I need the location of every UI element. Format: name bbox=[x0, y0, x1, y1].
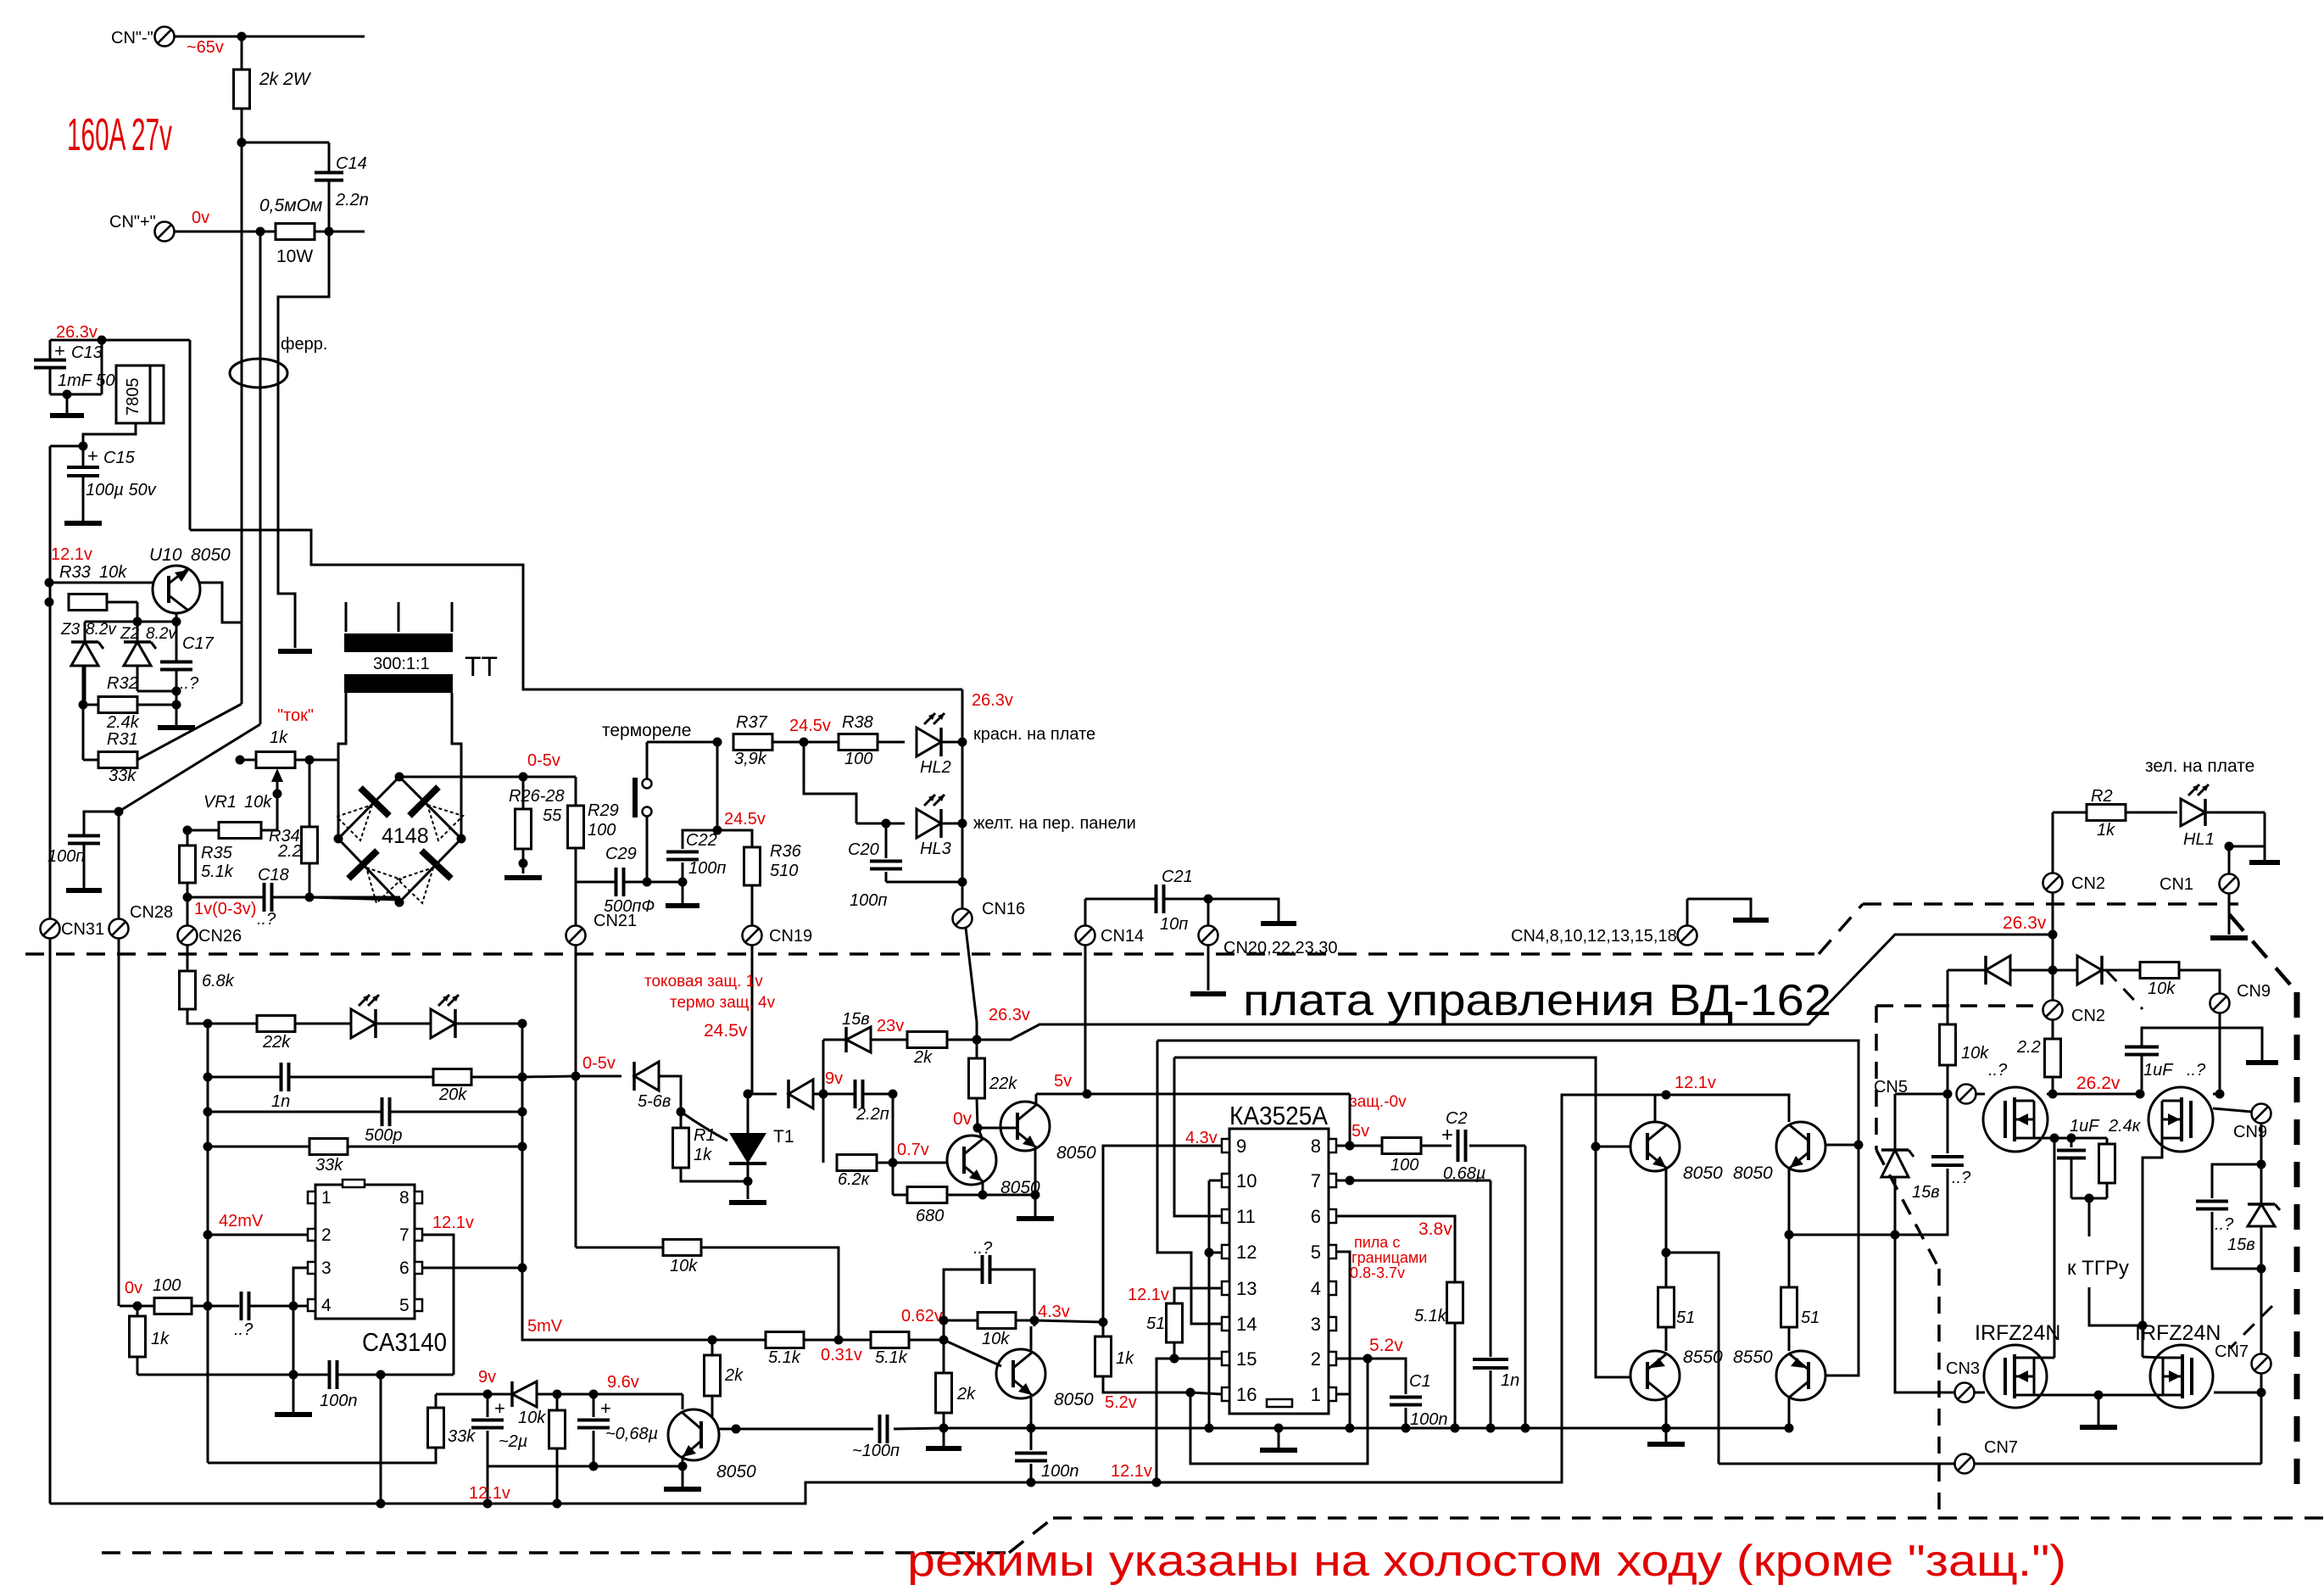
svg-text:CN1: CN1 bbox=[2160, 875, 2193, 894]
capacitor 100n mid bbox=[1030, 1428, 1033, 1450]
svg-text:CN4,8,10,12,13,15,18: CN4,8,10,12,13,15,18 bbox=[1511, 927, 1677, 946]
wire gnd bus right bbox=[1525, 1427, 1789, 1430]
node 26.2v bbox=[2048, 1090, 2058, 1099]
node M4 gate bbox=[2257, 1388, 2266, 1398]
connector CN9 top bbox=[2210, 994, 2230, 1013]
svg-text:..?: ..? bbox=[973, 1239, 993, 1258]
gnd bus with series cap bbox=[736, 1428, 873, 1431]
svg-text:C22: C22 bbox=[686, 831, 717, 850]
svg-text:+: + bbox=[494, 1398, 505, 1419]
transistor Q1 8050 bbox=[947, 1136, 996, 1185]
wire pin16 bbox=[1190, 1392, 1222, 1394]
svg-text:1n: 1n bbox=[1501, 1371, 1519, 1390]
node C13 gnd bbox=[63, 390, 72, 399]
node drv1 gnd bbox=[1662, 1424, 1671, 1433]
capacitor 1uF out1 bbox=[2125, 1046, 2159, 1049]
svg-text:CN2: CN2 bbox=[2071, 1007, 2105, 1025]
svg-text:8.2v: 8.2v bbox=[146, 625, 177, 643]
svg-text:0.31v: 0.31v bbox=[821, 1346, 862, 1364]
wire bbox=[175, 231, 260, 233]
wire Q1 collector bbox=[978, 1129, 983, 1140]
wire Q2 base bbox=[978, 1127, 1017, 1130]
wire U10 collector bbox=[200, 583, 242, 622]
svg-text:100: 100 bbox=[1390, 1156, 1418, 1175]
capacitor C1 100n bbox=[1368, 1359, 1406, 1394]
svg-text:51: 51 bbox=[1146, 1314, 1165, 1333]
svg-text:3: 3 bbox=[1311, 1314, 1321, 1335]
svg-text:5.1k: 5.1k bbox=[1414, 1307, 1447, 1325]
node drive B q bbox=[1854, 1141, 1864, 1150]
node M4 gate riser bbox=[2138, 1321, 2148, 1331]
wire Q2 collector bbox=[1035, 1094, 1038, 1105]
wire 12.1v left rail bbox=[49, 446, 52, 919]
resistor R35 5.1k bbox=[180, 845, 196, 883]
diode to 9v bbox=[748, 1093, 777, 1096]
svg-text:26.3v: 26.3v bbox=[972, 691, 1013, 710]
wire 12.1v rail bottom bbox=[50, 1095, 1666, 1504]
svg-text:8550: 8550 bbox=[1733, 1348, 1773, 1367]
svg-text:4: 4 bbox=[321, 1296, 332, 1315]
zener 15v drv bbox=[1894, 1170, 1897, 1235]
svg-text:12.1v: 12.1v bbox=[1128, 1286, 1169, 1304]
svg-text:51: 51 bbox=[1801, 1309, 1820, 1327]
svg-text:5.1k: 5.1k bbox=[875, 1348, 908, 1367]
svg-text:15в: 15в bbox=[2227, 1236, 2255, 1254]
wire M1 source down bbox=[2034, 1137, 2054, 1140]
mosfet M4 bbox=[2150, 1345, 2213, 1408]
connector CN2 top bbox=[2043, 873, 2063, 893]
wire Q1 base bbox=[893, 1162, 948, 1164]
svg-text:100n: 100n bbox=[1041, 1462, 1079, 1481]
node pin12 gnd bbox=[1205, 1424, 1214, 1433]
svg-text:C13: C13 bbox=[71, 343, 103, 362]
resistor 10k fb bbox=[939, 1316, 949, 1325]
transistor Q4 8050 bbox=[668, 1409, 719, 1460]
node 4.3v bbox=[1030, 1316, 1039, 1325]
resistor 2k q3 bbox=[711, 1340, 714, 1355]
node R33 base bbox=[45, 578, 54, 588]
svg-text:1uF: 1uF bbox=[2143, 1061, 2174, 1080]
svg-text:зел. на плате: зел. на плате bbox=[2145, 756, 2254, 776]
ground bbox=[682, 882, 684, 903]
diode 9v bbox=[512, 1381, 537, 1407]
resistor R1 1k bbox=[680, 1112, 683, 1128]
svg-text:R2: R2 bbox=[2091, 787, 2113, 806]
svg-text:33k: 33k bbox=[109, 767, 137, 785]
svg-text:7: 7 bbox=[399, 1225, 410, 1245]
node pot right bbox=[305, 756, 315, 765]
svg-text:1k: 1k bbox=[151, 1330, 170, 1348]
svg-text:C21: C21 bbox=[1162, 868, 1193, 886]
svg-text:5mV: 5mV bbox=[527, 1317, 563, 1336]
svg-text:100п: 100п bbox=[47, 847, 85, 866]
svg-text:15в: 15в bbox=[1912, 1183, 1940, 1202]
wire 12.1v drv bbox=[1666, 1095, 1789, 1122]
led HL2 bbox=[917, 728, 941, 756]
svg-text:..?: ..? bbox=[2215, 1215, 2234, 1234]
wire pin11 bbox=[1174, 1057, 1222, 1216]
ground bbox=[926, 1446, 961, 1451]
svg-text:C29: C29 bbox=[605, 845, 637, 863]
svg-text:TT: TT bbox=[465, 651, 498, 682]
wire C14 branch bbox=[278, 232, 329, 648]
svg-text:HL1: HL1 bbox=[2183, 830, 2215, 849]
ground bbox=[1017, 1216, 1054, 1221]
node HL2 right bbox=[958, 738, 967, 747]
wire 10k gate riser bbox=[1947, 970, 1949, 1024]
node pin4 bbox=[289, 1302, 298, 1311]
wire pin6 bbox=[422, 1267, 522, 1270]
capacitor ..? op bbox=[240, 1292, 243, 1320]
node 100n mid bottom bbox=[1027, 1478, 1036, 1487]
wire pin14 bbox=[1157, 1041, 1222, 1324]
node -65v bbox=[237, 138, 247, 148]
node Q3 emitter bbox=[1027, 1424, 1036, 1433]
svg-text:12.1v: 12.1v bbox=[469, 1484, 510, 1503]
wire M2-M4 link bbox=[2143, 1357, 2163, 1358]
wire pin16 loop bbox=[1190, 1359, 1368, 1464]
svg-text:8050: 8050 bbox=[1733, 1164, 1773, 1183]
svg-text:3.8v: 3.8v bbox=[1418, 1219, 1452, 1239]
wire drive B bbox=[1157, 1041, 1859, 1376]
node pin1 gnd bbox=[1346, 1424, 1355, 1433]
node bridge corners bbox=[395, 773, 404, 782]
wire Q4 base bbox=[719, 1428, 736, 1431]
svg-text:24.5v: 24.5v bbox=[724, 810, 766, 829]
svg-text:0-5v: 0-5v bbox=[582, 1054, 616, 1073]
connector CN9 mid bbox=[2252, 1104, 2271, 1124]
wire Q3 emitter bbox=[1030, 1398, 1033, 1428]
node pin7 bbox=[1346, 1176, 1355, 1186]
led HL3 bbox=[856, 823, 905, 825]
node 12.1v drv bbox=[1662, 1091, 1671, 1100]
CA3140 pin boxes bbox=[308, 1191, 315, 1203]
resistor 33k 9v bbox=[435, 1394, 437, 1408]
svg-text:4.3v: 4.3v bbox=[1038, 1303, 1070, 1321]
node pin16 v bbox=[1186, 1388, 1195, 1398]
wire M3 M4 source gnd bbox=[2034, 1394, 2163, 1397]
svg-text:~65v: ~65v bbox=[187, 38, 224, 57]
bridge 4148 diamond bbox=[338, 777, 461, 902]
ground bbox=[1260, 1448, 1297, 1453]
svg-text:14: 14 bbox=[1236, 1314, 1257, 1335]
node 0,68 top bbox=[589, 1390, 599, 1399]
svg-text:680: 680 bbox=[916, 1207, 944, 1225]
svg-text:2.2n: 2.2n bbox=[335, 191, 369, 209]
node R32 left bbox=[79, 700, 88, 710]
wire bbox=[242, 142, 329, 144]
svg-text:~100п: ~100п bbox=[852, 1442, 900, 1460]
resistor R29 100 bbox=[575, 777, 577, 806]
node M2 drain bbox=[2136, 1090, 2145, 1099]
node C20 right bbox=[958, 878, 967, 887]
svg-text:желт. на пер. панели: желт. на пер. панели bbox=[973, 814, 1136, 833]
svg-text:+: + bbox=[54, 340, 65, 361]
svg-text:C15: C15 bbox=[103, 449, 136, 467]
regulator 7805 bbox=[116, 366, 164, 423]
svg-text:ферр.: ферр. bbox=[281, 335, 327, 354]
node R37 left bbox=[713, 738, 722, 747]
node CN28 top bbox=[114, 807, 124, 817]
node 9v bbox=[819, 1090, 828, 1099]
resistor 20k bbox=[433, 1069, 471, 1085]
svg-text:0,5мОм: 0,5мОм bbox=[259, 196, 322, 215]
capacitor 500p fb bbox=[203, 1108, 213, 1117]
wire right vertical bbox=[2260, 1123, 2263, 1464]
svg-text:16: 16 bbox=[1236, 1384, 1257, 1405]
dashed inner diag bbox=[1876, 1150, 1939, 1269]
wire bridge top out bbox=[399, 776, 576, 778]
resistor 6.8k bbox=[180, 971, 196, 1009]
capacitor ..? q3 bbox=[944, 1270, 982, 1340]
svg-text:2.2: 2.2 bbox=[2016, 1038, 2041, 1057]
dashed mosfet diag b bbox=[2230, 1306, 2272, 1348]
mosfet M2 bbox=[2148, 1087, 2213, 1152]
resistor 22k led bbox=[208, 1023, 257, 1025]
node pin8 bbox=[1346, 1141, 1355, 1151]
wire R31 diagonal bbox=[137, 704, 242, 760]
wire bbox=[647, 741, 717, 744]
wire C2 down bbox=[1524, 1146, 1527, 1428]
dashed inner top bbox=[1876, 1004, 2043, 1007]
node R35 bottom bbox=[183, 893, 192, 902]
svg-text:5-6в: 5-6в bbox=[638, 1092, 671, 1111]
node R26 bottom bbox=[519, 859, 528, 868]
svg-text:8.2v: 8.2v bbox=[86, 621, 117, 639]
svg-text:100: 100 bbox=[153, 1276, 181, 1295]
wire Q1 emitter bbox=[982, 1181, 984, 1195]
svg-text:24.5v: 24.5v bbox=[704, 1021, 748, 1041]
svg-text:VR1: VR1 bbox=[203, 793, 237, 812]
svg-text:границами: границами bbox=[1351, 1249, 1427, 1266]
wire pin10 bbox=[1209, 1180, 1222, 1182]
svg-text:8050: 8050 bbox=[716, 1462, 756, 1482]
svg-text:CN3: CN3 bbox=[1946, 1359, 1980, 1378]
node pot left bbox=[236, 756, 245, 765]
svg-text:0v: 0v bbox=[953, 1109, 973, 1129]
capacitor 1uF out2 bbox=[2070, 1138, 2073, 1147]
wire CN5 to gate bbox=[1976, 1093, 1985, 1096]
connector CN5 bbox=[1957, 1085, 1976, 1104]
pot wiper arrow bbox=[276, 775, 279, 794]
node C22 bottom bbox=[678, 878, 688, 887]
svg-text:0.7v: 0.7v bbox=[897, 1141, 929, 1159]
wire HL1 gnd2 bbox=[2228, 846, 2231, 873]
wire pin9 bbox=[1103, 1146, 1222, 1322]
resistor 33k fb bbox=[203, 1142, 213, 1152]
svg-text:2: 2 bbox=[321, 1225, 332, 1245]
node 7805 in bbox=[98, 336, 107, 345]
capacitor 100n left bbox=[84, 812, 119, 835]
svg-text:100n: 100n bbox=[1410, 1410, 1448, 1429]
ground bbox=[729, 1200, 766, 1205]
svg-text:..?: ..? bbox=[257, 910, 276, 929]
svg-text:HL2: HL2 bbox=[920, 758, 951, 777]
wire power minus bus bbox=[241, 142, 243, 704]
svg-text:термореле: термореле bbox=[602, 721, 691, 740]
wire to R36 bbox=[717, 830, 752, 847]
svg-text:IRFZ24N: IRFZ24N bbox=[1975, 1321, 2060, 1345]
wire U10 emitter bbox=[176, 613, 178, 622]
svg-text:R36: R36 bbox=[770, 842, 802, 861]
wire Q2 emitter bbox=[1034, 1147, 1037, 1195]
ground bbox=[278, 649, 312, 654]
wire pin2 bbox=[203, 1230, 213, 1240]
svg-text:6: 6 bbox=[399, 1258, 410, 1278]
svg-text:плата управления ВД-162: плата управления ВД-162 bbox=[1243, 976, 1831, 1025]
svg-text:C14: C14 bbox=[336, 154, 367, 173]
svg-text:1k: 1k bbox=[2097, 821, 2115, 840]
node 5v bbox=[1083, 1090, 1092, 1099]
node emitter join bbox=[678, 1462, 688, 1471]
resistor 5.1k b bbox=[839, 1339, 871, 1342]
node 26.3v right bbox=[2048, 930, 2058, 940]
svg-text:..?: ..? bbox=[2187, 1061, 2206, 1080]
diode right bbox=[2053, 969, 2078, 972]
node tgru bbox=[2071, 1197, 2107, 1200]
wire M2 gate bbox=[2213, 1093, 2220, 1096]
wire 24.5v down bbox=[804, 742, 856, 823]
zener 15v right bbox=[2212, 1164, 2261, 1198]
svg-text:100n: 100n bbox=[320, 1392, 358, 1410]
wire 26.3v column bbox=[961, 689, 964, 909]
svg-text:CN16: CN16 bbox=[982, 900, 1025, 918]
node 5.1k gnd bbox=[1451, 1424, 1460, 1433]
svg-text:2k: 2k bbox=[956, 1385, 976, 1403]
wire diagonal B bbox=[119, 724, 260, 812]
wire bbox=[175, 36, 365, 38]
svg-text:160A 27v: 160A 27v bbox=[67, 109, 172, 160]
node C15 top bbox=[79, 442, 88, 451]
capacitor C14 bbox=[328, 142, 331, 172]
resistor 1k ka bbox=[1102, 1322, 1105, 1337]
node C1 gnd bbox=[1402, 1424, 1411, 1433]
svg-text:9v: 9v bbox=[478, 1368, 496, 1387]
svg-text:33k: 33k bbox=[448, 1427, 476, 1446]
connector CN19 bbox=[743, 926, 762, 946]
svg-text:1mF 50v: 1mF 50v bbox=[58, 371, 124, 390]
wire pin3 gnd bbox=[293, 1306, 295, 1375]
node M2 gate bbox=[2215, 1090, 2225, 1099]
svg-text:~0,68µ: ~0,68µ bbox=[605, 1425, 658, 1443]
ferrite ring bbox=[230, 359, 287, 388]
thermal switch bbox=[646, 742, 649, 779]
dashed bottom diagonal bbox=[1009, 1518, 1053, 1553]
KA3525A pin boxes bbox=[1222, 1139, 1229, 1152]
svg-text:6.8k: 6.8k bbox=[202, 972, 235, 991]
diode 5-6v bbox=[576, 1075, 621, 1078]
diode pair row bbox=[2052, 935, 2054, 970]
svg-text:"ток": "ток" bbox=[277, 706, 314, 725]
svg-text:R26-28: R26-28 bbox=[509, 787, 565, 806]
svg-text:10: 10 bbox=[1236, 1170, 1257, 1191]
node 2k top bbox=[708, 1336, 717, 1345]
led D2 bbox=[431, 1009, 455, 1038]
led D1 bbox=[351, 1009, 376, 1038]
wire M4 gate bbox=[2214, 1392, 2261, 1394]
dashed inner left bbox=[1875, 1006, 1878, 1150]
node wiper-VR1 bbox=[273, 790, 282, 799]
svg-text:10k: 10k bbox=[244, 793, 272, 812]
svg-text:10k: 10k bbox=[518, 1409, 546, 1427]
wire Q4 emitter row bbox=[488, 1465, 683, 1468]
wire pin12 bbox=[1209, 1252, 1222, 1254]
dashed board border bbox=[25, 952, 1819, 956]
svg-text:12.1v: 12.1v bbox=[432, 1214, 474, 1232]
node drv1 emitter bbox=[1662, 1248, 1671, 1258]
wire CN7 line bbox=[1719, 1463, 2261, 1465]
wire CN14 bbox=[1084, 899, 1087, 926]
transistor Q2 8050 bbox=[1000, 1102, 1050, 1151]
resistor R36 510 bbox=[744, 847, 761, 885]
svg-text:4: 4 bbox=[1311, 1278, 1321, 1299]
svg-text:8050: 8050 bbox=[1683, 1164, 1723, 1183]
diode left bbox=[1948, 969, 1986, 972]
svg-text:10п: 10п bbox=[1160, 915, 1188, 934]
svg-text:CN2: CN2 bbox=[2071, 874, 2105, 893]
capacitor ..? drv bbox=[1895, 1169, 1948, 1235]
thyristor T1 bbox=[729, 1133, 766, 1164]
svg-text:R33: R33 bbox=[59, 563, 91, 582]
wire pin6 out bbox=[522, 1268, 706, 1340]
svg-text:T1: T1 bbox=[773, 1127, 794, 1147]
node C17-R32 bbox=[172, 687, 181, 696]
capacitor C20 bbox=[882, 819, 891, 829]
connector CN1 bbox=[2220, 874, 2239, 894]
svg-text:R1: R1 bbox=[694, 1126, 716, 1145]
svg-text:8550: 8550 bbox=[1683, 1348, 1723, 1367]
node 0v op bbox=[133, 1302, 142, 1311]
capacitor 1n ka bbox=[1473, 1358, 1508, 1361]
ic KA3525A box bbox=[1229, 1129, 1329, 1414]
svg-text:26.3v: 26.3v bbox=[989, 1006, 1030, 1024]
svg-text:режимы указаны на холостом ход: режимы указаны на холостом ходу (кроме "… bbox=[907, 1537, 2066, 1586]
wire pin15 bbox=[1156, 1359, 1222, 1482]
wire pin3 bbox=[293, 1268, 308, 1306]
svg-text:100µ 50v: 100µ 50v bbox=[86, 481, 157, 499]
transistor Q3 8050 bbox=[996, 1349, 1045, 1398]
svg-text:CN28: CN28 bbox=[130, 903, 173, 922]
ground small bbox=[2264, 846, 2266, 860]
svg-text:CN"-": CN"-" bbox=[111, 29, 153, 47]
wire bbox=[241, 109, 243, 142]
svg-text:510: 510 bbox=[770, 862, 798, 880]
ground bbox=[1647, 1442, 1685, 1447]
svg-text:8050: 8050 bbox=[191, 545, 231, 565]
wire M2 right bbox=[2213, 1108, 2252, 1112]
node C2 gnd bbox=[1521, 1424, 1530, 1433]
svg-text:6.2к: 6.2к bbox=[838, 1170, 871, 1189]
node Q1 emitter bbox=[978, 1191, 988, 1200]
node Q2 gnd bbox=[1031, 1191, 1040, 1200]
svg-text:2.4k: 2.4k bbox=[106, 713, 140, 732]
capacitor 100n op bbox=[137, 1374, 329, 1376]
capacitor 1n fb bbox=[203, 1073, 213, 1082]
wire drv2 emitter bbox=[1788, 1168, 1791, 1235]
transistor 8550 drv2 bbox=[1776, 1351, 1825, 1400]
resistor 5.1k ka bbox=[1447, 1282, 1463, 1323]
wire 5v to pin8 bbox=[1087, 1093, 1350, 1096]
svg-text:+: + bbox=[87, 445, 98, 466]
node 100n right bbox=[376, 1370, 386, 1380]
svg-text:CN9: CN9 bbox=[2237, 982, 2271, 1001]
svg-text:R32: R32 bbox=[107, 674, 138, 693]
node 0v-b bbox=[325, 227, 334, 237]
svg-text:1: 1 bbox=[321, 1188, 332, 1208]
wire U10 base bbox=[49, 582, 153, 584]
ground bbox=[504, 875, 542, 880]
wire pot right to bridge bbox=[309, 759, 338, 762]
